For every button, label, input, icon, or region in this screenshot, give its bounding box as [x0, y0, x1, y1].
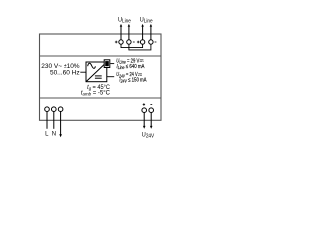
minus sign pair2	[155, 41, 157, 43]
label U_Line (left pair)	[118, 17, 131, 24]
terminal 24V minus circle	[149, 108, 154, 129]
terminal 24V plus circle	[142, 108, 147, 129]
terminal N circle	[52, 107, 57, 129]
label U_24V	[142, 132, 155, 139]
dc symbol line3	[138, 74, 142, 76]
terminal L circle	[45, 107, 50, 129]
device outline	[40, 34, 162, 120]
terminal circle 1	[119, 40, 123, 44]
AC/DC converter U1	[86, 62, 107, 82]
wire converter to 24V spec	[107, 76, 114, 78]
terminal earth circle	[58, 107, 63, 137]
minus sign pair1	[133, 41, 135, 43]
wire bus terminal 2	[128, 24, 130, 40]
svg-text:L: L	[45, 132, 49, 138]
svg-text:I24V ≤ 150 mA: I24V ≤ 150 mA	[119, 77, 147, 84]
svg-text:50...60 Hz: 50...60 Hz	[50, 69, 80, 76]
dc symbol line1	[140, 60, 144, 62]
plus sign pair1	[115, 41, 118, 44]
terminal circle 2	[127, 40, 131, 44]
minus sign 24V	[150, 104, 152, 106]
wire choke to bus spec	[110, 63, 114, 65]
label U_Line (right pair)	[140, 17, 153, 24]
svg-text:tamb = -5°C: tamb = -5°C	[81, 90, 111, 96]
wire bus terminal 3	[141, 24, 144, 40]
spec text I_24V <= 150 mA	[119, 77, 147, 84]
svg-text:ULine: ULine	[140, 17, 153, 24]
svg-text:U24V: U24V	[142, 132, 155, 139]
terminal circle 3	[140, 40, 144, 44]
svg-text:ILine ≤ 640 mA: ILine ≤ 640 mA	[117, 63, 145, 70]
spec text U_24V = 24 V dc	[116, 72, 138, 79]
terminal circle 4	[149, 40, 153, 44]
top section separator	[40, 55, 162, 57]
temperature text tg = 45 C	[87, 85, 110, 91]
wire bus terminal 1	[120, 24, 123, 40]
spec text U_Line = 29 V dc	[116, 58, 140, 65]
plus sign pair2	[137, 41, 140, 44]
svg-text:N: N	[52, 132, 56, 138]
spec text I_Line <= 640 mA	[117, 63, 145, 70]
plus sign 24V	[143, 103, 145, 105]
svg-text:ULine: ULine	[118, 17, 131, 24]
bus choke L1	[104, 60, 110, 68]
wire mains to converter	[80, 71, 86, 73]
wire bus terminal 4	[150, 24, 153, 40]
internal bus rail minus (terminals 2,4)	[129, 44, 151, 50]
bottom section separator	[40, 97, 162, 99]
internal bus rail plus (terminals 1,3)	[121, 44, 143, 48]
